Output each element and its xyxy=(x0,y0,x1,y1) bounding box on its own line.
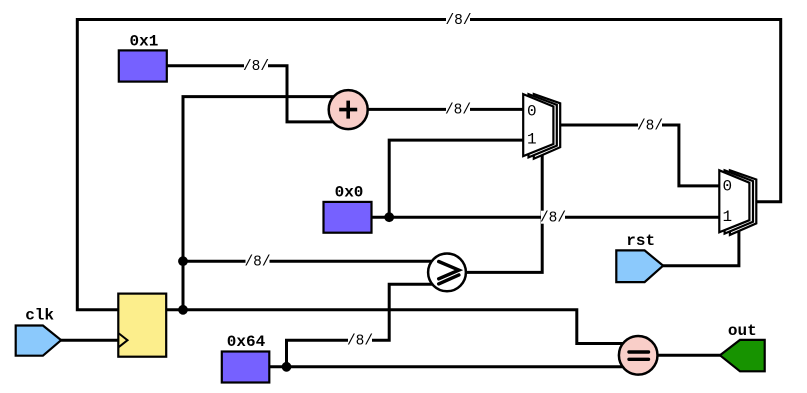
svg-text:0: 0 xyxy=(722,177,732,195)
bus width label /8/ on mux U3 output wire xyxy=(637,118,663,134)
bus width label /8/ on register-to-ge wire xyxy=(244,254,270,270)
mux U3 xyxy=(523,94,560,159)
bus width label /8/ on 0x1 wire xyxy=(243,59,269,75)
wire net K: constant 0x64 to eq comparator bottom input xyxy=(266,365,630,368)
junction node: register Q fanout lower xyxy=(178,305,188,315)
wire net G: mux U3 output to mux U4 input 0 xyxy=(552,125,722,186)
constant 0x0 xyxy=(324,184,372,233)
constant 0x64 body xyxy=(222,352,269,383)
mux U4 stacked body xyxy=(730,170,756,235)
constant 0x64 xyxy=(222,333,269,383)
junction node: 0x0 fanout xyxy=(384,212,394,222)
input port rst body xyxy=(616,250,663,282)
svg-text:out: out xyxy=(728,322,757,340)
svg-text:0: 0 xyxy=(527,102,537,120)
constant 0x0 body xyxy=(324,202,372,233)
svg-text:clk: clk xyxy=(25,306,54,324)
svg-text:/8/: /8/ xyxy=(445,13,471,29)
comparator U2 body xyxy=(428,254,466,292)
bus width label /8/ on 0x64-to-ge wire xyxy=(347,334,373,350)
wire net B: register Q to eq comparator top input xyxy=(164,310,630,344)
wire net I: rst port to mux U4 select xyxy=(656,226,739,266)
wire net B: register Q branch up to adder input xyxy=(183,97,340,311)
wire net A: mux U4 output to register D (feedback around top) xyxy=(77,20,780,310)
junction node: register Q fanout upper xyxy=(178,256,188,266)
constant 0x1 xyxy=(119,32,167,81)
bus width label /8/ on top feedback wire xyxy=(445,13,471,29)
mux U4 xyxy=(719,170,756,235)
adder U1 xyxy=(329,90,368,129)
input port clk body xyxy=(16,326,61,356)
output port out body xyxy=(720,340,765,371)
svg-text:0x0: 0x0 xyxy=(335,184,364,202)
adder U1 plus glyph xyxy=(339,101,357,119)
wire net F: ge comparator output to mux U3 select xyxy=(460,150,542,272)
svg-text:/8/: /8/ xyxy=(540,211,566,227)
comparator U2 (greater-equal) xyxy=(428,254,466,292)
svg-text:1: 1 xyxy=(527,131,537,149)
svg-text:/8/: /8/ xyxy=(244,254,270,270)
input port clk xyxy=(16,306,61,355)
bus width label /8/ on adder output wire xyxy=(445,103,471,119)
comparator U5 body xyxy=(619,336,658,375)
svg-text:0x1: 0x1 xyxy=(129,32,158,50)
svg-text:/8/: /8/ xyxy=(243,59,269,75)
register R1 (D flip-flop) xyxy=(118,294,166,357)
comparator U5 (equals) xyxy=(619,336,658,375)
register R1 body xyxy=(118,294,166,357)
wire net C: constant 0x1 to adder bottom input xyxy=(164,66,340,122)
adder U1 body xyxy=(329,90,368,129)
mux U3 stacked body xyxy=(534,94,560,159)
svg-text:rst: rst xyxy=(626,232,655,250)
comparator U5 equals glyph xyxy=(629,352,649,359)
svg-text:0x64: 0x64 xyxy=(227,333,266,351)
output port out xyxy=(720,322,765,372)
register R1 clock pin chevron xyxy=(118,333,127,347)
wire net L: eq comparator output to out port xyxy=(655,354,725,357)
bus width label /8/ on 0x0-to-mux wire xyxy=(540,211,566,227)
junction node: 0x64 fanout xyxy=(282,362,292,372)
wire net E: branch up to mux U3 input 1 xyxy=(389,140,530,217)
input port rst xyxy=(616,232,663,282)
svg-text:/8/: /8/ xyxy=(637,118,663,134)
svg-text:1: 1 xyxy=(722,208,732,226)
comparator U2 greater-equal glyph xyxy=(439,262,459,284)
wire net E: constant 0x0 to mux U4 input 1 xyxy=(370,216,722,219)
wire net D: adder output to mux U3 input 0 xyxy=(360,108,530,111)
svg-text:/8/: /8/ xyxy=(347,334,373,350)
constant 0x1 body xyxy=(119,50,167,81)
wire net J: clk port to register clock xyxy=(55,339,122,342)
wire net B: branch to ge comparator top input xyxy=(183,260,440,263)
wire net K: branch up to ge comparator bottom input xyxy=(287,284,441,367)
svg-text:/8/: /8/ xyxy=(445,103,471,119)
